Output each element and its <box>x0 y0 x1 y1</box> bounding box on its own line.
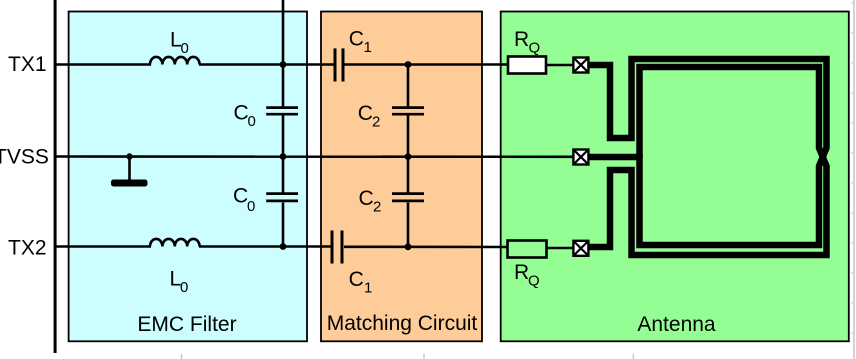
wire C2 upper to TVSS lead <box>407 116 410 157</box>
wire TVSS to C2 lower lead <box>407 157 410 193</box>
EMC Filter box <box>69 12 307 342</box>
svg-text:TX1: TX1 <box>8 53 47 76</box>
wire C2 lower to TX2 lead <box>407 203 410 247</box>
svg-text:R: R <box>514 28 529 51</box>
junction dot TX1/C0 <box>280 61 287 68</box>
capacitor C0 lower plates <box>266 192 298 195</box>
svg-text:0: 0 <box>247 198 255 215</box>
junction dot TVSS/C0 <box>280 153 287 160</box>
inductor L0 (TX2) <box>150 239 200 247</box>
wire TX2 mid <box>344 246 508 249</box>
page rule nubs <box>851 2 853 334</box>
svg-text:C: C <box>359 187 374 210</box>
wire C0 lower to TX2 lead <box>282 203 285 247</box>
svg-text:Matching Circuit: Matching Circuit <box>327 312 478 335</box>
svg-text:Q: Q <box>529 39 541 56</box>
wire TX1 mid <box>344 63 508 66</box>
wire TX1 to C2 upper lead <box>407 65 410 107</box>
feed terminal TX2 (crossed box) <box>573 241 588 256</box>
wire C0 feed from top <box>282 0 285 65</box>
feed terminal TX1 (crossed box) <box>573 58 588 73</box>
svg-text:2: 2 <box>372 113 380 130</box>
junction dot TVSS/ground <box>126 153 132 159</box>
wire TX2 after coil <box>199 245 331 248</box>
feed terminal TVSS (crossed box) <box>573 150 588 165</box>
svg-text:Q: Q <box>528 273 540 290</box>
svg-text:C: C <box>349 28 364 51</box>
capacitor C0 upper plates <box>266 106 298 109</box>
svg-text:EMC Filter: EMC Filter <box>137 313 236 336</box>
svg-text:C: C <box>358 102 373 125</box>
antenna trace turn 2 (TVSS to TX2) <box>589 67 827 255</box>
resistor RQ top <box>508 57 546 74</box>
antenna trace turn 1 (TX1 to TVSS) <box>588 59 827 245</box>
wire TX1 right <box>546 64 574 67</box>
inductor L0 (TX1) <box>150 57 200 65</box>
page tick bottom 3 <box>633 354 634 359</box>
Matching Circuit box <box>321 12 482 342</box>
svg-text:R: R <box>514 261 529 284</box>
svg-text:1: 1 <box>364 280 372 297</box>
svg-text:1: 1 <box>364 39 372 56</box>
svg-text:2: 2 <box>373 199 381 216</box>
wire TX2 <box>55 245 151 248</box>
capacitor C2 upper plates <box>392 106 424 109</box>
wire TX1 after coil <box>199 63 334 66</box>
svg-text:TVSS: TVSS <box>0 145 49 168</box>
wire TX1 to C0 upper lead <box>282 65 285 107</box>
svg-text:0: 0 <box>181 40 189 57</box>
junction dot TVSS/C2 <box>405 153 412 160</box>
junction dot TX1/C2 <box>405 61 412 68</box>
svg-text:C: C <box>349 268 364 291</box>
svg-text:C: C <box>234 102 249 125</box>
Antenna box <box>501 12 849 342</box>
capacitor C2 lower plates <box>392 192 424 195</box>
svg-text:0: 0 <box>248 113 256 130</box>
resistor RQ bottom <box>508 241 547 258</box>
capacitor C1 top (series) <box>334 48 337 81</box>
left rail <box>54 0 57 353</box>
svg-text:C: C <box>233 185 248 208</box>
junction dot TX2/C0 <box>280 243 287 250</box>
wire TVSS <box>55 155 574 158</box>
capacitor C1 bottom (series) <box>331 231 334 264</box>
wire TX2 right <box>546 247 574 250</box>
wire TX1 <box>55 63 151 66</box>
page tick bottom 1 <box>181 354 182 359</box>
svg-text:0: 0 <box>180 279 188 296</box>
junction dot TX2/C2 <box>405 243 412 250</box>
ground symbol <box>128 157 131 181</box>
svg-text:TX2: TX2 <box>8 237 47 260</box>
svg-text:Antenna: Antenna <box>637 313 716 336</box>
page rule right <box>853 0 854 359</box>
page tick bottom 2 <box>423 354 424 359</box>
wire C0 upper to TVSS lead <box>282 116 285 157</box>
wire TVSS to C0 lower lead <box>282 157 285 193</box>
